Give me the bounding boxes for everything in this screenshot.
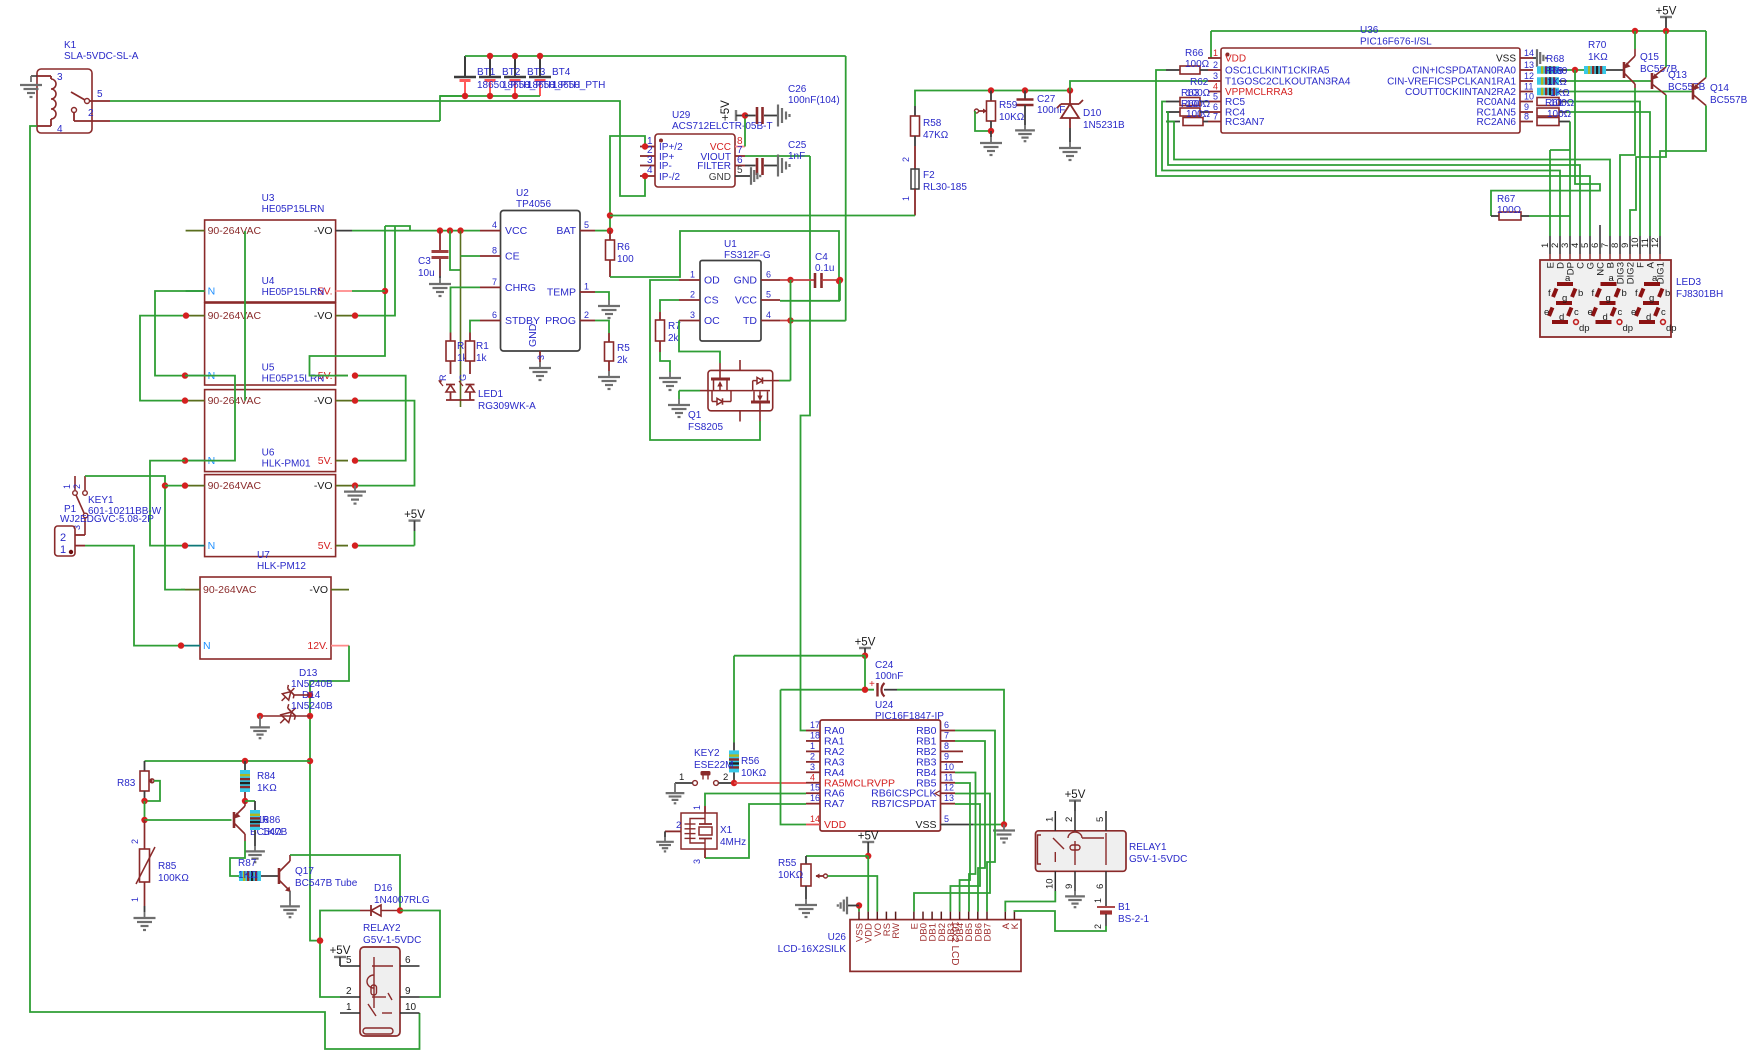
svg-text:100KΩ: 100KΩ (158, 873, 189, 884)
svg-text:1N4007RLG: 1N4007RLG (374, 895, 430, 906)
svg-text:9: 9 (944, 751, 949, 761)
resistor R64 100R at U36 pin6 (1166, 108, 1208, 116)
svg-text:R62: R62 (1190, 77, 1209, 88)
svg-text:G5V-1-5VDC: G5V-1-5VDC (363, 935, 421, 946)
wire U4 -VO riser (352, 226, 395, 319)
wire X1 pin2 lead (665, 830, 681, 832)
svg-text:RELAY2: RELAY2 (363, 923, 401, 934)
wire U1 TD to battery plus (780, 317, 846, 323)
svg-text:3: 3 (1213, 71, 1218, 81)
svg-text:16x2 LCD: 16x2 LCD (949, 921, 960, 965)
resistor R59b 100R at U36 pin8 (1537, 118, 1570, 126)
svg-text:16: 16 (810, 793, 820, 803)
svg-text:b: b (1578, 288, 1583, 299)
svg-text:BT2: BT2 (502, 67, 521, 78)
svg-text:10KΩ: 10KΩ (741, 768, 767, 779)
svg-text:R84: R84 (257, 771, 276, 782)
svg-text:12: 12 (1650, 237, 1661, 248)
svg-text:R59: R59 (999, 100, 1018, 111)
svg-text:1KΩ: 1KΩ (1547, 77, 1567, 88)
wire P1 pin1 lead (75, 545, 85, 547)
wire R7 to ground (660, 352, 670, 372)
wire +5V to LCD VDD (867, 856, 869, 912)
relay K1 SLA-5VDC-SL-A (37, 40, 139, 135)
svg-text:1: 1 (692, 805, 702, 810)
svg-text:N: N (203, 640, 211, 652)
svg-text:10KΩ: 10KΩ (778, 870, 804, 881)
relay RELAY2 G5V-1-5VDC (340, 947, 420, 1036)
resistor R71 1K at U36 pin11 (1537, 88, 1567, 96)
svg-text:7: 7 (1213, 112, 1218, 122)
svg-text:+5V: +5V (855, 637, 876, 649)
svg-text:R: R (438, 374, 448, 381)
svg-text:d: d (1559, 312, 1564, 323)
AC-DC module U6 HLK-PM01 (186, 448, 336, 557)
svg-text:f: f (1548, 288, 1551, 299)
svg-text:C3: C3 (418, 256, 431, 267)
resistor R61 100R at U36 pin9 (1537, 108, 1567, 116)
svg-text:R58: R58 (923, 118, 942, 129)
transistor Q1 FS8205 dual mosfet (700, 360, 779, 422)
svg-text:dp: dp (1666, 323, 1677, 334)
ground at R55 (795, 899, 817, 917)
wire CE connection (461, 255, 481, 257)
svg-text:CE: CE (505, 251, 520, 263)
IC U2 TP4056 (480, 188, 595, 362)
svg-text:D10: D10 (1083, 108, 1102, 119)
wire STDBY to R1 (470, 321, 480, 333)
svg-text:e: e (1544, 307, 1549, 318)
ground at R7 (659, 372, 681, 390)
svg-text:10: 10 (405, 1002, 417, 1013)
svg-text:5: 5 (737, 165, 743, 176)
svg-text:N: N (208, 540, 216, 552)
power +5V top right rail (1211, 6, 1706, 59)
capacitor C25 1nF (745, 140, 807, 175)
svg-text:U3: U3 (262, 193, 275, 204)
svg-text:K1: K1 (64, 40, 77, 51)
svg-text:12V.: 12V. (307, 640, 328, 652)
connector U26 LCD-16X2SILK (778, 912, 1021, 972)
ground at U24 VSS (993, 825, 1015, 843)
svg-text:4: 4 (492, 220, 497, 230)
svg-text:LED3: LED3 (1676, 277, 1701, 288)
svg-text:5: 5 (584, 220, 589, 230)
svg-text:12: 12 (1524, 71, 1534, 81)
capacitor C26 100nF(104) (745, 84, 840, 124)
svg-text:+5V: +5V (1656, 6, 1677, 18)
svg-text:R66: R66 (1185, 48, 1204, 59)
ground at R59 (980, 131, 1002, 155)
svg-text:RA7: RA7 (824, 798, 845, 810)
wire U5 -VO lead (336, 400, 352, 402)
svg-text:1N5240B: 1N5240B (291, 701, 333, 712)
ground at K1 pin 3 (20, 76, 42, 97)
wire relay2 loop right to pin9 (400, 911, 440, 998)
relay RELAY1 G5V-1-5VDC (1036, 811, 1127, 891)
potentiometer R83 (117, 761, 160, 804)
svg-text:d: d (1646, 312, 1651, 323)
wire battery bottom bus (440, 93, 540, 99)
svg-text:8: 8 (1524, 112, 1529, 122)
svg-text:R86: R86 (262, 815, 281, 826)
svg-text:X1: X1 (720, 825, 733, 836)
svg-text:RG309WK-A: RG309WK-A (478, 401, 536, 412)
wire U6 5V lead (336, 545, 348, 547)
crystal X1 4MHz (676, 805, 746, 864)
svg-text:g: g (1649, 293, 1654, 304)
ground at C27 (1015, 125, 1035, 141)
svg-text:HE05P15LRN: HE05P15LRN (262, 287, 325, 298)
svg-text:1KΩ: 1KΩ (238, 870, 258, 881)
svg-text:R85: R85 (158, 861, 177, 872)
label LED3 (1676, 277, 1723, 300)
svg-text:LED1: LED1 (478, 389, 503, 400)
svg-text:0.1u: 0.1u (815, 263, 834, 274)
svg-text:2: 2 (584, 310, 589, 320)
zener diode D13 1N5240B (277, 668, 333, 705)
svg-text:-VO: -VO (314, 480, 333, 492)
wire bias rail (145, 758, 311, 764)
svg-text:4: 4 (1213, 82, 1218, 92)
display LED3 FJ8301BH (1540, 225, 1671, 337)
wire U36 pin7 loop to LED3 B (1166, 122, 1610, 237)
ground at TEMP (598, 300, 620, 318)
svg-text:a: a (1652, 273, 1658, 284)
resistor R5 2k (605, 333, 631, 371)
ground at R86 (245, 846, 265, 862)
wire CHRG to R4 (451, 287, 481, 332)
wire RB7 to LCD DB3 (950, 804, 980, 912)
resistor R69 1K at U36 pin12 (1537, 77, 1567, 85)
svg-text:1: 1 (901, 196, 911, 201)
wire U7 12V lead (331, 645, 349, 647)
wire U29 pin1 to BAT net (610, 136, 648, 231)
wire U5 5V lead (336, 460, 348, 462)
LED3 seven segment digits (1544, 273, 1677, 334)
svg-text:1KΩ: 1KΩ (262, 827, 282, 838)
wire KEY1 to U6 U7 VAC (85, 476, 188, 590)
wire U29 VIOUT to RA0 of U24 (745, 156, 810, 731)
wire U1 GND pin6 (780, 277, 815, 283)
wire N chain U4-U5 inner (182, 376, 235, 464)
svg-text:a: a (1609, 273, 1615, 284)
wire RB4 to LCD DB5 (955, 773, 976, 912)
ground at D10 (1059, 142, 1081, 160)
resistor R85 100K thermistor (130, 820, 189, 912)
svg-text:b: b (1665, 288, 1670, 299)
svg-text:HE05P15LRN: HE05P15LRN (262, 204, 325, 215)
svg-text:18: 18 (810, 730, 820, 740)
svg-text:7: 7 (944, 730, 949, 740)
svg-text:2k: 2k (617, 355, 629, 366)
wire C4 to VCC line (839, 280, 841, 301)
wire OC to Q1 gate1 (679, 321, 720, 364)
svg-text:IP-/2: IP-/2 (659, 172, 681, 183)
svg-text:5: 5 (97, 89, 103, 100)
svg-text:1: 1 (62, 484, 72, 489)
wire Q13 emitter to +5V (1665, 31, 1667, 67)
wire Q14 collector to LED3 DIG1 (1660, 106, 1706, 237)
svg-text:11: 11 (944, 772, 953, 782)
resistor R1 1k (466, 333, 490, 375)
power +5V at RELAY2 pin5 (330, 945, 351, 966)
svg-text:Q13: Q13 (1668, 70, 1687, 81)
transistor Q13 BC557B (1652, 67, 1706, 95)
svg-text:2: 2 (1213, 60, 1218, 70)
power +5V above R55 (858, 831, 879, 860)
svg-text:CHRG: CHRG (505, 282, 536, 294)
ground at R85 (134, 912, 156, 930)
svg-text:C27: C27 (1037, 94, 1056, 105)
wire C24 to VSS (897, 690, 1004, 825)
svg-text:2: 2 (810, 751, 815, 761)
wire U7 12V to zener stack (307, 646, 349, 944)
svg-text:1: 1 (584, 282, 589, 292)
wire U3 5V to U4 5V loop (310, 226, 411, 376)
svg-text:2: 2 (346, 986, 352, 997)
svg-text:2: 2 (676, 820, 681, 831)
svg-text:e: e (1588, 307, 1593, 318)
svg-text:1: 1 (346, 1002, 352, 1013)
resistor R63 100R at U36 pin5 (1166, 98, 1208, 106)
resistor R68 1K at U36 pin13 (1537, 54, 1584, 74)
IC U24 PIC16F1847-IP (806, 700, 973, 831)
svg-text:10KΩ: 10KΩ (999, 112, 1025, 123)
wire K1 pin2 lead (92, 120, 110, 122)
svg-text:11: 11 (1524, 82, 1533, 92)
svg-text:R5: R5 (617, 343, 630, 354)
svg-text:1: 1 (1093, 898, 1103, 903)
resistor R58 47K (911, 106, 949, 146)
wire Q14 emitter to +5V rail (1705, 31, 1707, 78)
svg-text:R6: R6 (617, 242, 630, 253)
svg-text:5: 5 (1213, 92, 1218, 102)
wire N chain U3-U4 (155, 291, 205, 379)
wire U36 pin9 to LED3 A (1567, 112, 1650, 236)
wire Q15 collector to LED3 DIG3 (1620, 88, 1635, 236)
svg-text:F2: F2 (923, 170, 935, 181)
svg-text:CIN+ICSPDATAN0RA0: CIN+ICSPDATAN0RA0 (1412, 66, 1516, 77)
wire RA6 to X1 pin1 (705, 794, 806, 814)
capacitor C24 100nF (781, 660, 904, 697)
svg-text:TD: TD (743, 315, 757, 327)
wire Q17 collector to D16 (290, 855, 400, 911)
svg-text:4: 4 (766, 310, 771, 320)
wire U36 pin10 to LED3 F (1567, 102, 1640, 237)
svg-text:6: 6 (944, 720, 949, 730)
svg-text:PIC16F1847-IP: PIC16F1847-IP (875, 711, 944, 722)
svg-text:1KΩ: 1KΩ (257, 783, 277, 794)
AC-DC module U7 HLK-PM12 (181, 550, 331, 659)
power +5V at RELAY1 pin2 (1065, 789, 1086, 811)
wire U4 5V to U5 5V (352, 372, 406, 463)
junction R56 KEY2 RA5 (731, 780, 737, 786)
resistor R4 1k (446, 333, 470, 375)
svg-text:6: 6 (1095, 884, 1106, 889)
wire U3 -VO to U2 VCC (352, 227, 480, 233)
wire PROG to R5 (595, 321, 609, 334)
svg-text:2: 2 (60, 532, 66, 544)
wire U36 pin3 sense net (1070, 81, 1208, 91)
svg-text:BS-2-1: BS-2-1 (1118, 914, 1150, 925)
ground at U36 VSS (1533, 49, 1546, 67)
label U36 (1360, 25, 1432, 48)
svg-text:KEY2: KEY2 (694, 748, 720, 759)
svg-text:BT3: BT3 (527, 67, 546, 78)
svg-text:3: 3 (57, 72, 63, 83)
svg-text:90-264VAC: 90-264VAC (208, 480, 262, 492)
svg-text:BT1: BT1 (477, 67, 496, 78)
ground at U6 -VO (344, 486, 366, 504)
svg-text:R67: R67 (1497, 194, 1516, 205)
zener diode D10 1N5231B (1057, 87, 1125, 142)
wire Q15 emitter to +5V (1634, 31, 1636, 49)
svg-text:C24: C24 (875, 660, 894, 671)
svg-text:BC557B: BC557B (1710, 95, 1748, 106)
svg-text:K: K (1010, 922, 1021, 929)
wire P1 pin2 to KEY1 pin3 (75, 534, 85, 536)
svg-text:C26: C26 (788, 84, 807, 95)
svg-text:+5V: +5V (330, 945, 351, 957)
wire U36 pin5 loop to LED3 D (1162, 102, 1560, 237)
wire U36 pin11 to Q14 base (1567, 91, 1693, 93)
svg-text:d: d (1603, 312, 1608, 323)
ground at R5 (598, 371, 620, 389)
wire R55 top (806, 855, 868, 857)
svg-text:1: 1 (60, 544, 66, 556)
wire R55 wiper to LCD VO (828, 876, 878, 912)
wire relay2 coil loop left (317, 911, 360, 998)
svg-text:KEY1: KEY1 (88, 495, 114, 506)
wire RB5 to LCD DB4 (955, 783, 970, 912)
wire U36 pin8 to LED3 DP and E (1550, 122, 1570, 237)
ground at U29 GND pin5 (745, 167, 760, 185)
battery BT4 18650_PTH (529, 56, 551, 96)
wire RA5 MCLR red net (734, 782, 806, 784)
svg-text:6: 6 (405, 955, 411, 966)
svg-text:Q15: Q15 (1640, 52, 1659, 63)
svg-text:6: 6 (492, 310, 497, 320)
svg-text:f: f (1592, 288, 1595, 299)
wire +5V to R56 and C24 (734, 656, 865, 743)
svg-text:FS8205: FS8205 (688, 422, 723, 433)
svg-text:18650_PTH: 18650_PTH (552, 80, 605, 91)
wire CS to R7 (660, 300, 679, 312)
svg-text:CS: CS (704, 295, 719, 307)
svg-text:DB7: DB7 (983, 923, 994, 941)
svg-text:5V.: 5V. (318, 455, 333, 467)
svg-text:1: 1 (130, 897, 140, 902)
wire VCC jog to CE column (450, 231, 461, 407)
svg-text:12: 12 (944, 783, 954, 793)
wire VSS to ground (973, 821, 1007, 827)
svg-text:R1: R1 (476, 341, 489, 352)
wire RA7 to X1 pin3 (705, 804, 806, 858)
connector P1 WJ2EDGVC-5.08-2P (55, 504, 155, 556)
wire N chain U5-U6 (150, 461, 188, 549)
ground at U2 GND (529, 362, 551, 380)
svg-text:f: f (1635, 288, 1638, 299)
svg-text:5: 5 (766, 290, 771, 300)
svg-text:2: 2 (72, 484, 82, 489)
resistor R6 100 (606, 231, 635, 277)
svg-text:g: g (1562, 293, 1567, 304)
svg-text:c: c (1661, 307, 1666, 318)
fuse F2 RL30-185 (901, 146, 967, 216)
svg-text:2: 2 (130, 839, 140, 844)
svg-text:U6: U6 (262, 448, 275, 459)
svg-text:100: 100 (617, 254, 634, 265)
ground at C25 (778, 155, 790, 177)
resistor R56 10K (729, 743, 767, 781)
svg-text:U29: U29 (672, 110, 691, 121)
resistor R65 100R at U36 pin7 (1166, 118, 1208, 126)
svg-text:10u: 10u (418, 268, 435, 279)
svg-text:9: 9 (1524, 102, 1529, 112)
wire U4 VAC left loop to U5 VAC (140, 312, 189, 403)
wire R83 to R85 and Q16 base (141, 801, 231, 823)
AC-DC module U5 HE05P15LRN (186, 363, 336, 472)
potentiometer R59 10K (975, 87, 1025, 134)
svg-text:4: 4 (57, 124, 63, 135)
wire R67 to LED3 DP riser (1529, 215, 1570, 217)
wire battery plus rail down to U1 TD (845, 56, 847, 321)
svg-text:FS312F-G: FS312F-G (724, 250, 771, 261)
resistor R70 1K (1584, 40, 1624, 74)
wire D14 row to ground (257, 713, 310, 719)
svg-text:2: 2 (1093, 924, 1103, 929)
wire net K1-5 to U29 IP- (110, 101, 645, 196)
svg-text:2: 2 (901, 157, 911, 162)
svg-text:RL30-185: RL30-185 (923, 182, 967, 193)
ground at X1 pin2 (656, 831, 674, 851)
svg-text:U7: U7 (257, 550, 270, 561)
wire U36 pin6 loop to LED3 C (1166, 112, 1580, 236)
ground at RELAY1 pin9 (1065, 891, 1085, 907)
svg-text:U36: U36 (1360, 25, 1379, 36)
AC-DC module U4 HE05P15LRN (186, 276, 336, 385)
svg-text:HLK-PM12: HLK-PM12 (257, 561, 306, 572)
svg-text:2: 2 (723, 772, 728, 783)
svg-text:G: G (458, 374, 468, 381)
svg-text:3: 3 (536, 355, 546, 360)
wire net K1-2 to battery minus (110, 96, 465, 121)
wire LCD K to B1 minus (1014, 911, 1106, 931)
svg-text:5: 5 (944, 814, 949, 824)
svg-text:BAT: BAT (556, 225, 576, 237)
capacitor C3 10u (418, 231, 449, 279)
wire K1 pin4 outer loop to RELAY2 pin10 (30, 126, 420, 1049)
ground at Q1 (668, 399, 690, 417)
svg-text:OD: OD (704, 275, 720, 287)
wire U1 VCC (780, 300, 840, 302)
svg-text:FILTER: FILTER (697, 161, 731, 172)
switch KEY2 ESE22M (675, 748, 733, 785)
battery BT3 18650_PTH (504, 56, 526, 96)
capacitor C27 100nF (1017, 87, 1066, 125)
svg-text:a: a (1565, 273, 1571, 284)
wire battery top bus (465, 53, 846, 59)
svg-text:e: e (1631, 307, 1636, 318)
svg-text:GND: GND (734, 275, 758, 287)
wire VDD riser (781, 690, 807, 825)
ground at C3 (429, 276, 451, 296)
svg-text:-VO: -VO (314, 310, 333, 322)
svg-text:1KΩ: 1KΩ (1588, 52, 1608, 63)
svg-text:5: 5 (1095, 817, 1106, 822)
wire Q13 collector to LED3 DIG2 (1630, 95, 1666, 236)
